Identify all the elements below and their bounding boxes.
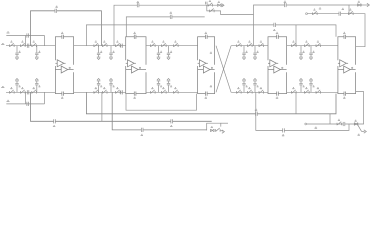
capacitor Cp17 with ground xyxy=(299,46,304,60)
switch S17 xyxy=(162,88,167,94)
capacitor Cp9 with ground xyxy=(157,46,162,60)
label bus speck 2 xyxy=(342,8,344,9)
wire vcm tap2 top xyxy=(44,36,46,46)
switch S32b xyxy=(313,9,318,15)
wire bus right top xyxy=(254,5,350,46)
wire U4-U5 top xyxy=(287,45,338,47)
wire bus right bottom xyxy=(256,92,349,130)
output arrow bottom xyxy=(364,130,367,133)
capacitor Cp20 with ground xyxy=(309,79,314,93)
wire topmid link xyxy=(207,5,254,14)
switch S35 xyxy=(208,1,213,7)
capacitor CF1 xyxy=(170,12,172,19)
switch S30 xyxy=(316,88,321,94)
wire U5 out bottom xyxy=(354,92,364,124)
wire U2-U3 top xyxy=(146,45,198,47)
capacitor Ccm1 xyxy=(27,33,29,37)
wire stub U2 bottom loop xyxy=(126,94,197,111)
capacitor Cp4 with ground xyxy=(35,79,40,93)
wire botmid link xyxy=(207,123,221,130)
capacitor CG2 xyxy=(141,128,143,136)
label out speck xyxy=(315,127,318,128)
switch S32 xyxy=(349,9,354,15)
switch S38 X xyxy=(211,127,215,132)
switch S24 xyxy=(259,88,264,94)
capacitor E1 xyxy=(55,6,58,13)
capacitor Cp13 with ground xyxy=(242,46,247,60)
switch S31 X xyxy=(358,1,362,6)
capacitor CR1 xyxy=(284,1,286,7)
op-amp U2 xyxy=(126,32,146,98)
wire bus E2 bottom xyxy=(31,92,212,121)
switch S14 xyxy=(162,41,167,47)
wire out bottom line xyxy=(307,123,354,125)
switch S1 phi1 xyxy=(10,41,15,47)
capacitor Cp8 with ground xyxy=(109,79,114,93)
op-amp U5 xyxy=(338,32,356,98)
capacitor CR4 xyxy=(343,122,345,126)
capacitor Cp19 with ground xyxy=(299,79,304,93)
switch S22 xyxy=(237,88,242,94)
capacitor CA2 series xyxy=(27,90,29,94)
wire vcm tap2 bottom xyxy=(44,92,46,104)
capacitor CK1 xyxy=(255,109,257,116)
label Vin+ xyxy=(1,44,4,45)
wire botmid arrow wire xyxy=(221,129,223,132)
wire out bottom arrow wire xyxy=(362,131,365,133)
switch S6 xyxy=(32,88,37,94)
switch S4 phi1 xyxy=(10,88,15,94)
wire bus F2 tap xyxy=(295,92,297,114)
switch S25 xyxy=(292,41,297,47)
switch S10 xyxy=(94,88,99,94)
label vcm bottom xyxy=(7,100,10,101)
switch S26 xyxy=(305,41,310,47)
wire U2-U3 bottom xyxy=(146,91,198,93)
capacitor E2 xyxy=(53,119,55,126)
wire Vcm top line xyxy=(6,35,44,37)
node terminal bottom xyxy=(305,123,307,125)
capacitor CF2 xyxy=(170,119,172,126)
capacitor CH1 xyxy=(137,2,139,8)
switch S18 xyxy=(174,88,179,94)
wire U1-U2 top xyxy=(74,45,126,47)
switch S9 xyxy=(116,41,121,47)
wire U4-U5 bottom xyxy=(287,91,338,93)
wire cross-U4 bottom xyxy=(231,91,268,93)
capacitor Cp11 with ground xyxy=(157,79,162,93)
wire bus G1 top xyxy=(86,25,336,46)
output arrow topmid xyxy=(222,4,225,7)
wire bus F2 bottom xyxy=(86,92,336,114)
switch S7 xyxy=(94,41,99,47)
capacitor CA1 series xyxy=(27,44,29,48)
wire out top arrow wire xyxy=(361,4,368,6)
op-amp U4 xyxy=(268,32,287,98)
switch S15 xyxy=(174,41,179,47)
switch S13 xyxy=(151,41,156,47)
switch S33 xyxy=(337,119,342,125)
capacitor Cp12 with ground xyxy=(167,79,172,93)
capacitor Cp3 with ground xyxy=(15,79,20,93)
switch S29 xyxy=(305,88,310,94)
capacitor Cp16 with ground xyxy=(253,79,258,93)
switch S20 xyxy=(248,41,253,47)
wire cross-U4 top xyxy=(231,45,268,47)
switch S27 xyxy=(316,41,321,47)
switch S21 xyxy=(259,41,264,47)
switch S36 X xyxy=(218,1,222,6)
switch S34 X xyxy=(354,120,358,125)
wire bus G2 bottom xyxy=(112,92,207,130)
label vcm top xyxy=(7,32,10,33)
wire crossover B xyxy=(216,46,231,93)
wire input Vin- line xyxy=(6,91,55,93)
wire input Vin+ line xyxy=(6,45,55,47)
node terminal top xyxy=(306,13,308,15)
capacitor CR3 xyxy=(282,128,284,136)
wire out bottom slant xyxy=(358,125,362,131)
capacitor Cp6 with ground xyxy=(109,46,114,60)
capacitor Cp7 with ground xyxy=(97,79,102,93)
wire Vcm bottom line xyxy=(6,103,44,105)
output arrow top xyxy=(367,3,370,6)
wire bus E1 top xyxy=(31,11,102,46)
switch S28 xyxy=(292,88,297,94)
switch S11 xyxy=(102,88,107,94)
wire bus right top end xyxy=(349,4,358,6)
output arrow botmid xyxy=(222,130,225,133)
switch S16 xyxy=(151,88,156,94)
wire vcm tap1 bottom xyxy=(25,92,27,104)
capacitor Cp5 with ground xyxy=(97,46,102,60)
switch S3 xyxy=(32,41,37,47)
capacitor CM1 above bus xyxy=(205,2,207,5)
switch S37 xyxy=(210,9,215,13)
switch S19 xyxy=(237,41,242,47)
label U3 out speck bottom xyxy=(210,86,212,87)
label bus speck 1 xyxy=(319,8,321,9)
wire bus G1 tap xyxy=(295,25,297,46)
wire bus H1 top xyxy=(114,5,217,46)
wire topmid arrow wire xyxy=(221,4,223,6)
wire U1-U2 bottom xyxy=(74,91,126,93)
capacitor CB1 series xyxy=(121,44,123,48)
op-amp U3 xyxy=(198,32,215,98)
capacitor CR2 xyxy=(339,12,341,16)
switch S12 xyxy=(116,88,121,94)
switch S8 xyxy=(102,41,107,47)
wire botmid stub xyxy=(221,122,228,124)
switch S23 xyxy=(248,88,253,94)
wire vcm tap1 top xyxy=(25,36,27,46)
switch S2 phi2 xyxy=(21,41,26,47)
capacitor Cp1 with ground xyxy=(15,46,20,60)
label Vin- xyxy=(1,86,4,87)
capacitor Cp14 with ground xyxy=(253,46,258,60)
wire bus F2 drop xyxy=(329,114,331,124)
capacitor Ccm2 xyxy=(27,102,29,106)
op-amp U1 xyxy=(55,32,73,98)
capacitor Cp18 with ground xyxy=(309,46,314,60)
wire crossover A xyxy=(216,46,231,93)
wire U5 out top xyxy=(308,14,366,47)
capacitor Cp15 with ground xyxy=(242,79,247,93)
switch S39 xyxy=(216,128,221,132)
capacitor Cp10 with ground xyxy=(167,46,172,60)
switch S5 phi2 xyxy=(21,88,26,94)
capacitor CB2 series xyxy=(121,90,123,94)
label out bottom speck xyxy=(358,134,360,135)
wire bus F1 top xyxy=(126,17,204,37)
capacitor CG1t xyxy=(273,23,275,31)
capacitor Cp2 with ground xyxy=(35,46,40,60)
wire bus E2 riser xyxy=(101,92,103,121)
label U3 out speck top xyxy=(210,52,212,53)
